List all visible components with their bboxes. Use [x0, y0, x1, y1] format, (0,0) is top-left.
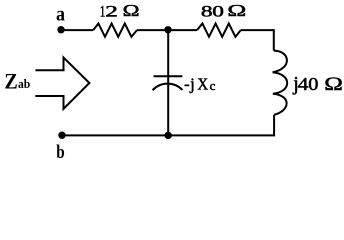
junction dot bottom — [165, 132, 172, 139]
svg-text:ab: ab — [18, 77, 30, 92]
svg-text:4: 4 — [298, 75, 309, 95]
resistor R1 12 ohm — [93, 24, 137, 37]
impedance arrow Zab — [35, 58, 89, 109]
svg-text:X: X — [197, 76, 208, 94]
resistor R2 80 ohm — [197, 24, 241, 37]
svg-text:j: j — [189, 74, 195, 93]
wire inductor to bottom-right corner — [62, 115, 274, 136]
svg-text:Ω: Ω — [123, 2, 140, 20]
capacitor C1 curved plate — [153, 84, 183, 91]
capacitor C1 center lead — [167, 30, 169, 135]
svg-text:0: 0 — [212, 3, 224, 21]
svg-text:Ω: Ω — [324, 73, 343, 94]
svg-text:b: b — [56, 141, 64, 162]
wire a to R1 — [62, 29, 94, 31]
svg-text:0: 0 — [308, 75, 318, 95]
svg-text:-: - — [184, 75, 189, 93]
inductor L1 j40 ohm — [273, 51, 288, 115]
svg-text:Z: Z — [4, 68, 17, 93]
wire R1 to node — [137, 29, 168, 31]
node b dot — [58, 132, 65, 139]
svg-text:c: c — [210, 79, 216, 93]
wire node to R2 — [168, 29, 197, 31]
node a dot — [57, 26, 64, 33]
svg-text:2: 2 — [105, 2, 118, 20]
junction dot top — [164, 26, 171, 33]
svg-text:8: 8 — [201, 3, 213, 20]
capacitor C1 flat plate — [154, 75, 183, 77]
wire R2 to top-right corner — [241, 30, 274, 50]
svg-text:Ω: Ω — [227, 2, 246, 20]
svg-text:a: a — [56, 4, 66, 26]
